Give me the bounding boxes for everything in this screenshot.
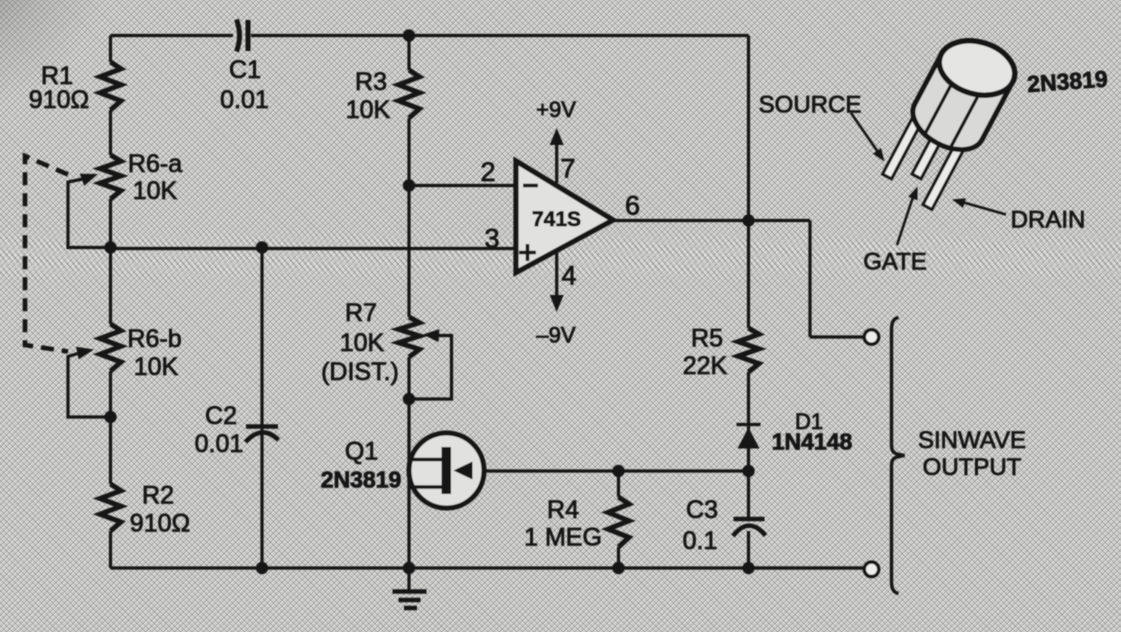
svg-text:+9V: +9V (536, 97, 576, 122)
svg-text:1 MEG: 1 MEG (524, 524, 602, 552)
svg-text:3: 3 (484, 224, 499, 254)
svg-text:(DIST.): (DIST.) (321, 358, 399, 386)
svg-text:1N4148: 1N4148 (772, 428, 853, 454)
svg-text:SINWAVE: SINWAVE (918, 427, 1026, 454)
svg-text:R6-b: R6-b (127, 325, 181, 353)
svg-text:2N3819: 2N3819 (1026, 66, 1108, 98)
svg-text:R7: R7 (345, 299, 377, 327)
svg-text:OUTPUT: OUTPUT (923, 454, 1022, 481)
svg-text:DRAIN: DRAIN (1011, 207, 1086, 234)
svg-text:2: 2 (480, 157, 495, 187)
svg-text:10K: 10K (340, 329, 385, 357)
svg-text:0.1: 0.1 (683, 527, 718, 555)
svg-text:10K: 10K (346, 96, 391, 124)
svg-text:GATE: GATE (863, 249, 927, 276)
svg-text:R4: R4 (547, 496, 579, 524)
svg-text:R6-a: R6-a (128, 150, 182, 178)
svg-text:910Ω: 910Ω (130, 510, 190, 538)
svg-text:Q1: Q1 (345, 438, 378, 466)
svg-text:R3: R3 (355, 68, 387, 96)
svg-text:R5: R5 (691, 325, 723, 353)
svg-text:C3: C3 (686, 496, 718, 524)
svg-text:R2: R2 (142, 482, 174, 510)
svg-text:C1: C1 (229, 56, 261, 84)
svg-text:0.01: 0.01 (195, 430, 244, 458)
svg-text:–9V: –9V (536, 322, 575, 347)
svg-text:10K: 10K (134, 353, 179, 381)
svg-text:10K: 10K (133, 177, 178, 205)
svg-text:22K: 22K (683, 352, 728, 380)
svg-text:4: 4 (561, 261, 576, 291)
svg-text:6: 6 (625, 191, 640, 221)
svg-text:741S: 741S (532, 208, 581, 231)
svg-text:SOURCE: SOURCE (759, 92, 862, 119)
svg-text:0.01: 0.01 (220, 86, 269, 114)
svg-text:910Ω: 910Ω (29, 86, 89, 114)
svg-text:7: 7 (560, 154, 575, 184)
svg-text:2N3819: 2N3819 (321, 466, 402, 492)
svg-text:C2: C2 (205, 402, 237, 430)
